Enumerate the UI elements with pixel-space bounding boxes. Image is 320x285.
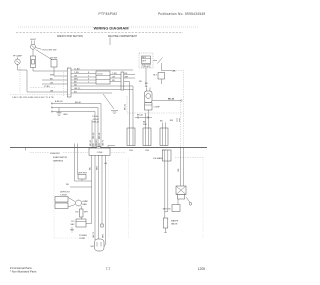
freezer box left dotted edge [53,163,55,238]
svg-text:COMP: COMP [154,107,161,109]
svg-text:GN-YL: GN-YL [93,231,95,238]
freezer section dotted top [30,152,49,154]
long wire 1 [51,104,101,121]
junction box [76,219,86,227]
svg-text:GND: GND [63,114,68,116]
svg-text:OR: OR [112,76,116,78]
svg-text:RD: RD [74,85,78,87]
svg-text:FREEZER: FREEZER [50,153,60,155]
svg-text:BK-40: BK-40 [137,115,144,117]
wire into bar y80 [42,79,67,81]
bar right wire 5 [71,82,96,84]
dotted optional wire [30,87,55,89]
bar right wire 3 [71,76,96,78]
ground 2 [71,227,73,230]
svg-text:CONN: CONN [97,152,103,154]
switch contact [158,58,163,64]
wire below control C [33,68,67,72]
ADC dashed box [139,53,153,68]
svg-text:WH: WH [143,124,147,126]
tick on divider [25,147,27,150]
wire relay down [161,79,163,84]
svg-text:GN: GN [99,143,101,147]
harness plug 1 [127,128,135,146]
thermostat [186,197,190,203]
small marks near dotted corner [176,118,178,122]
svg-text:FAN: FAN [83,203,88,206]
wire light to control [32,49,34,56]
svg-text:WH-40: WH-40 [93,122,100,124]
svg-text:WH: WH [125,76,129,78]
connector bar J1 [67,68,71,97]
svg-text:BK-40: BK-40 [90,139,92,146]
relay box [158,73,165,80]
svg-text:BK: BK [173,71,177,73]
small boxes pair [55,197,68,203]
section top dashed line [16,32,183,34]
svg-text:VAC: VAC [70,223,75,226]
svg-text:WH: WH [97,166,99,170]
vertical quad down to divider box [91,120,93,149]
diagonal wire A to D [36,50,53,60]
long wire 3 [51,112,95,121]
svg-text:RD: RD [139,81,143,83]
svg-text:T-RD: T-RD [112,73,117,75]
svg-text:WH: WH [50,74,54,76]
svg-text:WH: WH [74,79,78,81]
svg-text:Publication No. 5995434549: Publication No. 5995434549 [158,12,205,16]
harness plug 2 [143,128,151,146]
svg-text:EVAP: EVAP [83,200,89,203]
wire stub below machine label [109,38,111,46]
svg-text:OR: OR [74,76,78,78]
svg-text:GN-YL: GN-YL [74,88,81,90]
bar right wire 6 [71,85,121,87]
fresh food box bottom dotted edge [10,94,70,96]
svg-text:EVAPORATOR: EVAPORATOR [53,156,68,159]
water valve component [165,211,168,213]
svg-text:DEFROST: DEFROST [60,192,71,194]
svg-text:FRESH FOOD SECTION: FRESH FOOD SECTION [57,36,83,38]
svg-text:* Non-Illustrated Parts: * Non-Illustrated Parts [10,270,37,274]
svg-text:WH-40: WH-40 [96,139,98,146]
wires below divider box [91,156,93,224]
icemaker connector at divider [163,150,172,161]
svg-text:PTF84PM2: PTF84PM2 [99,12,118,16]
motor box [172,205,180,212]
wire ADC down [145,68,147,87]
svg-text:CORD: CORD [79,238,86,240]
svg-text:GN-YL: GN-YL [103,139,105,146]
svg-text:MOTOR: MOTOR [163,209,171,211]
svg-text:A BK-40: A BK-40 [55,100,63,103]
icemaker feed wires [180,147,182,186]
svg-text:OR-40: OR-40 [93,119,100,121]
dotted guide left of bar [63,72,65,96]
extra vertical wire right of cord [104,156,106,247]
svg-text:7-7: 7-7 [106,267,111,271]
divider connector box [97,147,101,149]
freezer box right dotted edge [128,158,130,238]
temp control box [96,71,110,84]
svg-text:WH: WH [84,212,88,214]
svg-text:T-STAT: T-STAT [60,193,68,196]
temp control wires right [110,74,135,76]
svg-text:BU: BU [74,92,77,94]
svg-text:1 BK 2 OR 3 RD 4 WH 5: 1 BK 2 OR 3 RD 4 WH 5 BU 6 GN 7 YL 8 TN [12,97,54,99]
svg-text:INT LIGHT SW: INT LIGHT SW [43,50,57,52]
svg-text:VALVE: VALVE [171,223,178,226]
svg-text:RD: RD [93,143,95,147]
bar right wire 1 [71,69,133,71]
fresh food light bulb [31,44,36,49]
control C rectangle [31,56,36,68]
svg-text:# Functional Parts: # Functional Parts [10,266,32,270]
condenser fan wire [152,100,181,102]
compressor motor box [145,103,153,111]
wire ADC right [153,60,157,62]
svg-text:GN: GN [50,90,54,92]
wire right with label [162,70,173,72]
svg-text:RD: RD [75,212,79,214]
wire 102 end connector [101,224,103,227]
L fragment right of divider box [108,146,115,152]
freezer box bottom dotted edge [54,237,90,239]
machine box bottom dotted edge [127,112,184,114]
wire lamp B down [18,64,68,92]
svg-text:LT-BU: LT-BU [44,86,50,88]
switch D rectangle [51,60,57,67]
bar right wire 2 [71,73,96,75]
harness plug 3 [160,128,168,146]
title dotted rule right [129,26,199,28]
faint dotted vertical [108,158,110,238]
overload ticks [146,88,148,92]
wire below valve [165,228,167,233]
svg-text:SW: SW [170,120,173,122]
wire compressor bottom [147,110,149,113]
ground symbol [58,108,60,113]
svg-text:PK-40: PK-40 [93,116,100,118]
freezer wires [75,180,92,182]
short wire with ticks above plug2 [135,117,152,119]
wire junction to cord [86,223,92,225]
machine box left dotted edge fragment [126,96,128,113]
diagonal ground wire below temp control [103,94,114,109]
svg-text:ADC: ADC [142,56,147,59]
run capacitor circle [146,94,151,99]
icemaker connector pair down to valve [164,161,166,218]
freezer feed verticals [74,144,76,182]
evap fan motor [76,200,82,206]
bar right wire 7 [71,89,133,91]
icemaker dotted right edge [202,157,204,238]
svg-text:FF LAMP: FF LAMP [13,54,22,57]
component chain below [80,209,84,217]
title dotted rule left [18,26,94,28]
svg-text:RD: RD [66,184,70,186]
svg-text:HARNESS: HARNESS [53,159,64,162]
dotted guide at x20 [19,67,21,93]
svg-text:RD: RD [112,80,116,82]
svg-text:BK-40: BK-40 [168,98,175,101]
freezer top component [78,175,86,180]
dotted wires right of connectors [180,101,182,148]
svg-text:DEF HTR: DEF HTR [78,173,88,175]
svg-text:RLY: RLY [153,75,158,77]
wire y86 turn down [121,86,133,145]
wire end ticks [51,102,53,104]
svg-text:GN: GN [104,163,108,165]
bar right wire 4 [71,79,96,81]
relay start capsule [145,91,153,103]
svg-text:LT-BU: LT-BU [74,69,80,71]
bar right wire 8 [71,92,112,94]
icemaker dotted top edge [175,156,203,158]
ADC inner module [142,56,151,64]
svg-text:T-RD: T-RD [74,72,79,74]
wires to light [31,41,33,45]
svg-text:WATER: WATER [171,220,179,223]
wire below switch D [54,67,67,76]
svg-text:MACHINE COMPARTMENT: MACHINE COMPARTMENT [108,35,138,38]
connector strip [121,72,124,90]
svg-text:WH: WH [103,234,105,238]
lamp B circle [15,59,20,64]
svg-text:1205: 1205 [198,267,205,271]
svg-text:GN: GN [90,246,94,248]
svg-text:RD-40: RD-40 [99,132,101,139]
svg-text:BK-40: BK-40 [125,103,127,110]
icemaker module [176,186,186,195]
svg-text:BK-40: BK-40 [75,102,82,104]
svg-text:LIGHT: LIGHT [30,39,37,41]
svg-text:WIRING DIAGRAM: WIRING DIAGRAM [93,25,129,30]
svg-text:POWER: POWER [79,235,87,237]
svg-text:OR: OR [50,82,54,84]
svg-text:OR-40: OR-40 [93,132,95,139]
long wire 2 [51,108,98,121]
wire into bar y84 [42,83,67,85]
svg-text:COLD: COLD [97,74,103,76]
main divider wire [10,147,207,149]
